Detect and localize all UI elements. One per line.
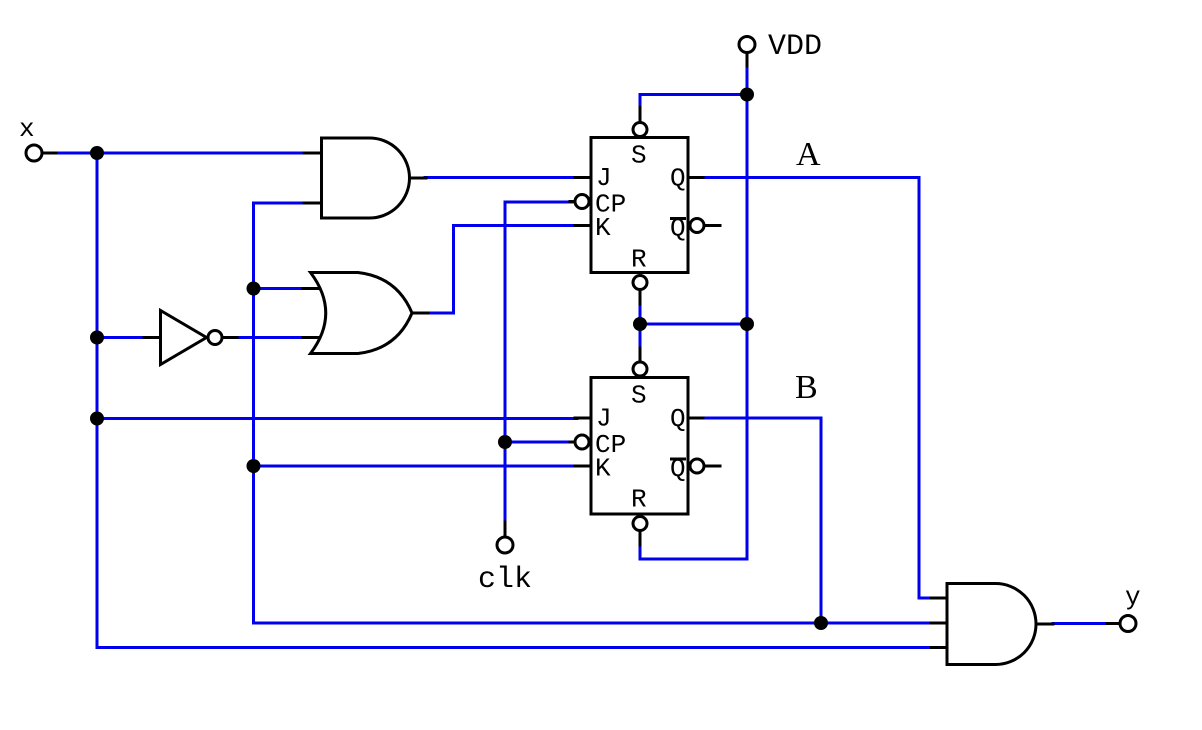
U2 pin J stub bbox=[575, 417, 591, 420]
U1 label Qbar bbox=[670, 214, 686, 244]
svg-text:K: K bbox=[595, 454, 611, 484]
svg-text:Q: Q bbox=[670, 404, 686, 434]
or-gate OR1 bbox=[303, 273, 428, 354]
junction R1/S2 node bbox=[633, 317, 647, 331]
wire x-net vertical down left side and bottom run to AND2 lower input bbox=[97, 153, 934, 648]
junction riser to OR1 upper input bbox=[247, 282, 261, 296]
terminal VDD bbox=[739, 37, 755, 67]
svg-text:K: K bbox=[595, 213, 611, 243]
U1 pin Qbar bubble and stub bbox=[690, 219, 720, 233]
U2 pin K stub bbox=[575, 465, 591, 468]
wire inverter output to OR1 lower input bbox=[237, 336, 307, 339]
svg-text:J: J bbox=[596, 163, 612, 193]
junction on x-net at top bbox=[90, 146, 104, 160]
svg-text:Q: Q bbox=[670, 164, 686, 194]
wire clk branch to CP of FF2 bbox=[505, 441, 572, 444]
wire AND2 output to y terminal bbox=[1053, 622, 1108, 625]
U2 pin CP bubble and stub bbox=[570, 435, 589, 449]
jk-flip-flop U1 body bbox=[591, 138, 688, 273]
terminal clk bbox=[497, 522, 513, 553]
junction x-net to J2 bbox=[90, 412, 104, 426]
U1 pin R bubble and stub bbox=[633, 276, 647, 305]
wire R of FF2 over to VDD rail bottom bbox=[640, 544, 747, 559]
wire S of FF1 up to VDD rail bbox=[640, 95, 747, 111]
inverter NOT1 bbox=[144, 311, 237, 365]
U1 pin Q stub bbox=[688, 176, 703, 179]
U1 pin J stub bbox=[575, 176, 591, 179]
wire branch to J input of FF2 bbox=[97, 417, 577, 420]
svg-text:J: J bbox=[596, 404, 612, 434]
junction VDD to S1 bbox=[740, 88, 754, 102]
svg-text:R: R bbox=[631, 485, 647, 515]
svg-text:S: S bbox=[631, 141, 647, 171]
junction riser to K2 bbox=[247, 459, 261, 473]
junction VDD to R1 node bbox=[740, 317, 754, 331]
svg-text:y: y bbox=[1125, 582, 1141, 612]
wire branch to K input of FF2 bbox=[254, 465, 578, 468]
U2 pin Q stub bbox=[688, 417, 703, 420]
svg-text:VDD: VDD bbox=[768, 30, 822, 64]
U2 pin S bubble and stub bbox=[633, 348, 647, 376]
wire branch to inverter input bbox=[97, 336, 147, 339]
terminal x bbox=[26, 145, 56, 161]
wire clk vertical riser to CP of FF1 bbox=[505, 202, 572, 523]
junction clk to CP2 bbox=[498, 435, 512, 449]
svg-text:B: B bbox=[795, 369, 818, 406]
U2 pin R bubble and stub bbox=[633, 517, 647, 546]
wire VDD vertical rail bbox=[746, 65, 749, 559]
wire AND1 output to J input of FF1 bbox=[425, 176, 577, 179]
svg-text:A: A bbox=[796, 136, 821, 173]
junction x-net to inverter bbox=[90, 331, 104, 345]
U2 pin Qbar bubble and stub bbox=[690, 459, 720, 473]
wire branch to OR1 upper input bbox=[254, 287, 308, 290]
wire OR1 output up to K input of FF1 bbox=[427, 226, 577, 314]
U2 label Qbar bbox=[670, 454, 686, 484]
and-gate AND1 bbox=[304, 138, 426, 218]
svg-text:x: x bbox=[19, 114, 35, 144]
U1 pin CP bubble and stub bbox=[570, 195, 589, 209]
svg-text:clk: clk bbox=[478, 563, 532, 597]
wire node B from Q of FF2 down to AND2 middle input bbox=[702, 418, 821, 623]
U1 pin K stub bbox=[575, 224, 591, 227]
terminal y bbox=[1107, 616, 1136, 632]
wire R1/S2 node over to VDD rail bbox=[640, 323, 747, 326]
and-gate AND2 (output gate) bbox=[931, 584, 1053, 665]
svg-text:R: R bbox=[631, 245, 647, 275]
svg-text:S: S bbox=[631, 381, 647, 411]
junction node B at AND2 middle input bbox=[814, 616, 828, 630]
wire node A from Q of FF1 to AND2 top input bbox=[702, 178, 934, 599]
jk-flip-flop U2 body bbox=[591, 378, 688, 515]
wire AND1 lower input riser and bottom run to AND2 middle input bbox=[254, 203, 935, 623]
wire R of FF1 down to S of FF2 bbox=[639, 303, 642, 349]
wire x-net horizontal to AND1 upper input bbox=[55, 152, 308, 155]
U1 pin S bubble and stub bbox=[633, 108, 647, 137]
